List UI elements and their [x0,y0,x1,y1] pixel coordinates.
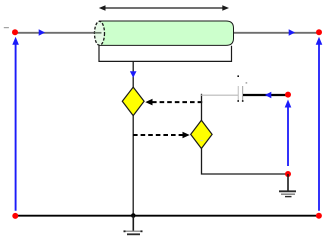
bracket (measurement bracket under transmission line) [99,46,232,62]
node N5 (red dot, above right ground) [285,171,291,177]
control arrow (dashed, from E1 branch to F1 left vertex, pointing right) [133,132,190,139]
wire (E1 bottom down to bottom rail) [132,115,134,216]
wire (F1 bottom, down then right to node N5) [202,149,289,175]
length arrow (double-headed, above transmission line) [99,5,229,11]
wire (top-right, transmission line to node N2) [234,32,320,34]
node N4 (red dot, bottom-right) [316,213,322,219]
controlled source E1 (yellow diamond, left) [122,87,144,116]
current arrow (blue vertical annotation between N6 and N5, pointing up) [285,100,292,167]
current arrow (blue, pointing up, left edge) [12,37,19,45]
wire (bottom rail, node N3 to node N4) [15,215,319,217]
junction (black dot on bottom rail) [131,213,136,218]
current arrow (blue, pointing up, right edge) [316,37,323,45]
current arrow (blue, pointing right, top-left wire) [39,29,45,36]
node N2 (red dot, top-right) [316,29,322,35]
wire (capacitor right lead, thick black, to node N6) [243,94,288,96]
value label (faint minus inside F1) [200,140,203,141]
node N6 (red dot, capacitor output) [285,92,291,98]
control arrow (dashed, into E1 right vertex, pointing left) [145,99,202,106]
controlled source F1 (yellow diamond, right) [191,120,212,148]
ground (right, below node N5) [279,174,296,197]
wire (capacitor left lead, thin gray) [201,94,238,96]
current arrow (blue, pointing down, on tap wire) [130,71,137,77]
current arrow (blue, pointing left, on capacitor right lead) [265,92,272,99]
node N1 (red dot, top-left) [12,29,18,35]
ground (bottom, below junction) [124,216,143,235]
capacitor C1 (plates) [237,75,247,101]
polarity mark (small gray tick top-left) [4,27,9,28]
wire (top-left, node N1 to transmission line) [15,32,100,34]
wire (from capacitor lead node down to controlled source F1) [201,94,203,122]
wire (left edge, blue, node N1 down to node N3) [15,40,17,211]
wire (tap from bracket down to controlled source E1) [132,61,134,88]
node N3 (red dot, bottom-left) [12,213,18,219]
wire (right edge, blue, node N2 down to node N4) [318,40,320,211]
transmission line T1 (green cylinder) [95,21,234,45]
current arrow (blue, pointing right, top-right wire) [289,29,295,36]
